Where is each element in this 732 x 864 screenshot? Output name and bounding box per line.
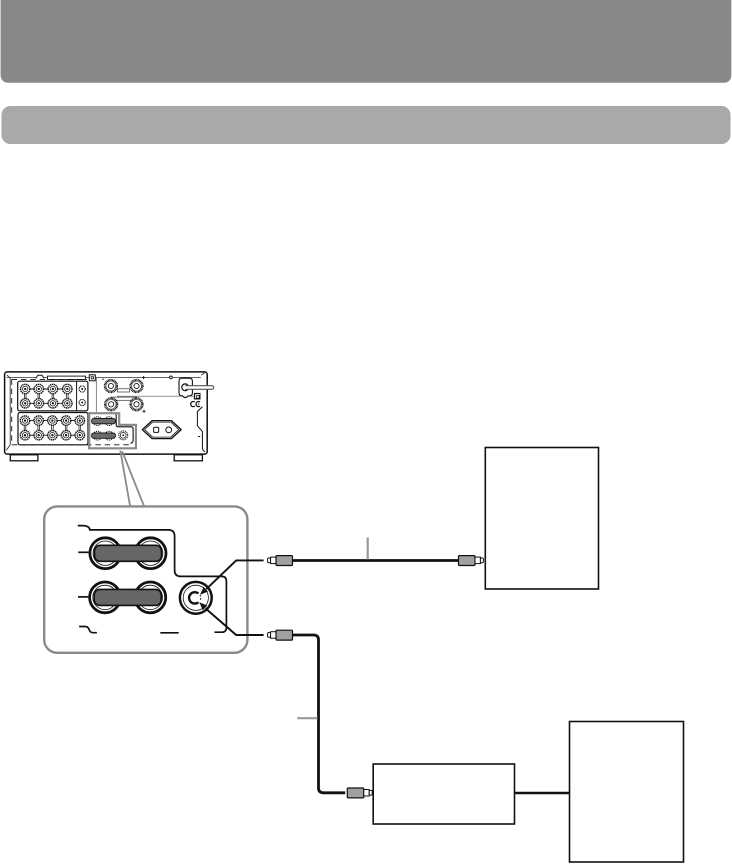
callout coaxial jack [180, 582, 212, 614]
cable 1 wire [293, 559, 459, 562]
connector line box2 to box3 [515, 792, 570, 795]
receiver chassis outline [5, 372, 208, 454]
box 3 (component bottom right) [570, 722, 684, 863]
callout inner outline path [78, 526, 227, 633]
box 2 (component bottom middle) [373, 764, 514, 824]
jack block 2 tie lines [24, 421, 80, 436]
speaker terminal tie bars [111, 389, 136, 401]
CE mark [191, 402, 200, 407]
speaker terminal A right [131, 380, 143, 392]
chassis top-right chamfer [201, 373, 204, 376]
power cord inlet recess [179, 378, 192, 397]
gray highlight frame on receiver [89, 413, 136, 448]
jack block 1 tie lines [24, 389, 68, 403]
section header bar (light gray) [2, 106, 731, 144]
page header bar (dark gray) [1, 0, 732, 83]
optical pill jack row 1 [92, 418, 116, 423]
power cord grommet [182, 384, 189, 391]
cable 2 right plug [347, 788, 372, 798]
highlighted jack group on receiver: circles behind pills [93, 417, 113, 440]
cable 2 left plug [268, 630, 293, 640]
callout row 2 jack circles [90, 582, 166, 613]
cable 1 label tick [367, 537, 369, 559]
highlighted block inner outline [89, 414, 133, 444]
top edge trapezoid bump [36, 375, 44, 378]
speaker section divider [96, 377, 196, 411]
top edge vent slot [48, 376, 86, 380]
speaker terminal A left [105, 380, 117, 392]
AC outlet [142, 421, 181, 439]
callout row 1 pill [95, 545, 162, 561]
polarity marks [102, 376, 145, 413]
logo square [194, 393, 201, 400]
cable 1 right plug [459, 556, 484, 566]
optical pill jack row 2 [92, 433, 116, 438]
callout row 2 pill [94, 589, 161, 605]
dashed outline around jack field [12, 379, 132, 444]
callout panel frame [44, 506, 247, 652]
right side crease [197, 407, 205, 452]
cable 2 wire [293, 635, 346, 793]
callout wedge lines [120, 451, 144, 506]
top screw hole [170, 376, 173, 379]
jack block 1 divider [76, 381, 78, 411]
jack block 2 border [18, 413, 88, 445]
callout dash ticks [78, 552, 179, 633]
top edge screw block [89, 375, 95, 381]
box 1 (component top right) [485, 448, 598, 590]
arrow to coaxial jack (top cable) [200, 560, 264, 594]
receiver left foot [10, 455, 38, 461]
arrow to coaxial jack (bottom cable) [199, 602, 263, 635]
RCA jacks block 1 [21, 384, 73, 408]
chassis top-left chamfer [6, 375, 10, 450]
cable 2 label tick [297, 717, 317, 719]
RCA jacks block 2 [20, 416, 84, 440]
power cord [185, 386, 214, 390]
speaker terminal B left [105, 399, 117, 411]
callout row 1 jack circles [90, 538, 166, 569]
coaxial jack on receiver [119, 431, 128, 440]
chassis inner top seam [7, 376, 201, 378]
speaker terminal B right [131, 399, 143, 411]
crease tick [198, 436, 200, 438]
cable 1 left plug [268, 556, 293, 566]
jack block 1 border [18, 381, 88, 411]
receiver right foot [174, 455, 202, 461]
small jacks column [79, 386, 85, 406]
